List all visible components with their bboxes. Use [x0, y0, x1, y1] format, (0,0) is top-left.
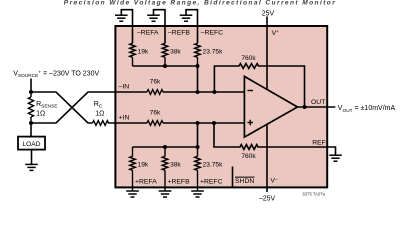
svg-text:23.75k: 23.75k [203, 48, 224, 55]
svg-text:Precision Wide Voltage Range,: Precision Wide Voltage Range, Bidirectio… [64, 0, 336, 7]
wire: load to ground [31, 150, 33, 165]
svg-text:SHDN: SHDN [235, 178, 254, 185]
svg-text:6375 TA07a: 6375 TA07a [303, 191, 326, 196]
wire: crossover source to +IN [31, 92, 93, 123]
node: 760k ref tap [212, 121, 216, 125]
LOAD box [18, 137, 45, 150]
node: feedback tap [212, 90, 216, 94]
node: 23.75k bottom to bus [196, 145, 200, 149]
wire: +IN row left [115, 122, 147, 124]
ground (REF pin) [329, 155, 342, 161]
resistor 760k (feedback) with wire to OUT [214, 64, 304, 107]
svg-text:1Ω: 1Ω [36, 110, 45, 117]
svg-text:760k: 760k [241, 153, 256, 160]
svg-text:38k: 38k [170, 48, 181, 55]
ground (bottom, +REFA) [126, 191, 139, 197]
node: load node [29, 121, 33, 125]
wire: -IN row right [163, 91, 244, 93]
ground (top, for -REFA) [115, 10, 133, 44]
ground (bottom, +REFB) [159, 191, 172, 197]
node: inverting node A [196, 90, 200, 94]
wire: bottom reference bus [133, 146, 198, 148]
svg-text:+REFC: +REFC [200, 179, 223, 186]
wire: load drop [30, 123, 32, 137]
svg-text:19k: 19k [138, 48, 149, 55]
resistor 19k (-REFA) [130, 43, 136, 66]
resistor 76k (inverting input) [147, 90, 163, 95]
svg-text:–REFA: –REFA [137, 30, 159, 37]
node: 38k bottom to bus [163, 145, 167, 149]
resistor RC 1ohm [93, 121, 116, 126]
wire: +IN row right [163, 122, 244, 124]
wire: top reference bus [133, 65, 198, 67]
resistor 23.75k (+REFC) [195, 147, 201, 191]
pin SHDN stub [232, 167, 234, 188]
ground (top, for -REFC) [180, 10, 198, 44]
wire: riser non-inverting node to bottom bus [197, 123, 199, 147]
svg-text:LOAD: LOAD [23, 141, 41, 148]
svg-text:–REFB: –REFB [168, 30, 190, 37]
wire: OUT row [298, 106, 336, 108]
wire: source stub [30, 79, 32, 93]
ground (top, for -REFB) [147, 10, 165, 44]
wire: crossover load to -IN [31, 92, 115, 123]
svg-text:–IN: –IN [119, 83, 130, 90]
svg-text:OUT: OUT [311, 99, 325, 106]
resistor RSENSE 1ohm [28, 92, 33, 123]
svg-text:1Ω: 1Ω [95, 110, 104, 117]
resistor 19k (+REFA) [130, 147, 136, 191]
resistor 38k (-REFB) [162, 43, 168, 66]
svg-text:+IN: +IN [119, 115, 130, 122]
node: non-inverting node B [196, 121, 200, 125]
wire: bus riser to inverting node [197, 66, 199, 92]
svg-text:19k: 19k [138, 161, 149, 168]
wire: -IN row left [115, 91, 147, 93]
svg-text:76k: 76k [150, 110, 161, 117]
svg-text:+REFA: +REFA [135, 179, 157, 186]
svg-text:VSOURCE+ = –230V TO 230V: VSOURCE+ = –230V TO 230V [13, 70, 99, 79]
resistor 23.75k (-REFC) [195, 43, 201, 66]
svg-text:REF: REF [312, 140, 326, 147]
ground (bottom, +REFC) [191, 191, 204, 197]
node: 38k to bus [163, 64, 167, 68]
node: source node [29, 90, 33, 94]
svg-text:VOUT = ±10mV/mA: VOUT = ±10mV/mA [338, 105, 396, 114]
resistor 38k (+REFB) [162, 147, 168, 191]
op-amp U1 [244, 76, 297, 137]
svg-text:25V: 25V [262, 10, 275, 17]
svg-text:RSENSE: RSENSE [36, 101, 57, 110]
wire: V+ supply riser [266, 17, 268, 90]
node: 23.75k to bus [196, 64, 200, 68]
svg-text:76k: 76k [150, 79, 161, 86]
resistor 760k (to REF) with REF row [214, 123, 336, 155]
ground (load) [25, 164, 38, 170]
svg-text:760k: 760k [241, 55, 256, 62]
node: OUT [303, 105, 307, 109]
amplifier block U1 (shaded body) [115, 26, 327, 187]
svg-text:38k: 38k [170, 161, 181, 168]
svg-text:+REFB: +REFB [168, 179, 191, 186]
svg-text:23.75k: 23.75k [203, 161, 224, 168]
svg-text:RC: RC [94, 101, 103, 110]
svg-text:–REFC: –REFC [201, 30, 223, 37]
svg-text:–25V: –25V [259, 195, 276, 202]
resistor 76k (non-inverting input) [147, 121, 163, 126]
wire: V- supply riser [266, 124, 268, 192]
